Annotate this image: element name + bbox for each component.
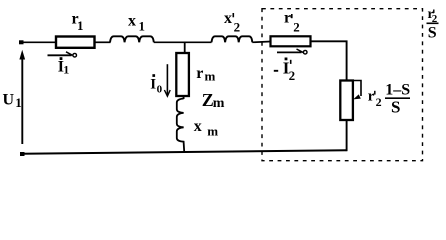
label Zm (202, 90, 225, 111)
svg-text:1: 1 (77, 18, 84, 33)
label U1 (3, 91, 22, 110)
resistor rm (176, 53, 189, 96)
label I0 (phasor) (150, 74, 162, 95)
resistor r1 (56, 37, 95, 48)
svg-text:I: I (150, 77, 156, 93)
wire: r2' to top-right corner and down (311, 41, 347, 80)
label r2' (284, 10, 300, 35)
label r2' (1-S)/S (368, 82, 410, 117)
svg-text:S: S (391, 98, 400, 117)
wire: rm to xm stub (183, 96, 185, 99)
resistor r2' (271, 36, 311, 46)
wire: between x2' and r2' (252, 41, 270, 44)
current arrow -I2' (277, 49, 307, 54)
svg-text:r: r (368, 88, 375, 104)
svg-text:r: r (196, 65, 203, 82)
label r1 (72, 11, 84, 34)
current arrow I0 (164, 64, 170, 96)
label -I2' (phasor) (274, 58, 295, 84)
node: input terminal top-left (19, 40, 24, 44)
svg-text:S: S (428, 25, 437, 42)
voltage arrow U1 (19, 50, 25, 144)
inductor x1 (110, 36, 154, 42)
label r2'/S (total rotor resistance) (427, 7, 439, 42)
svg-text:2: 2 (289, 68, 296, 83)
current arrow I1 (48, 52, 77, 57)
svg-text:x: x (224, 10, 232, 27)
label I1 (phasor) (58, 57, 70, 76)
wire: between x1 and x2' (154, 41, 212, 43)
svg-text:1: 1 (63, 63, 69, 77)
svg-text:2: 2 (376, 95, 382, 109)
svg-text:0: 0 (157, 84, 163, 96)
svg-text:2: 2 (293, 19, 300, 34)
variable arrow on load resistor (353, 81, 361, 100)
label x2' (224, 10, 240, 34)
inductor xm (vertical) (177, 99, 184, 152)
wire: bottom return wire (22, 150, 347, 154)
svg-text:2: 2 (234, 20, 241, 35)
wire: junction stub down to rm (184, 42, 186, 53)
label x1 (128, 12, 145, 33)
svg-text:1–S: 1–S (385, 82, 410, 99)
wire: between r1 and x1 (95, 41, 111, 43)
wire: load resistor down to bottom wire (346, 120, 348, 151)
svg-text:m: m (207, 124, 218, 139)
node: input terminal bottom-left (20, 152, 25, 156)
svg-text:U: U (3, 91, 15, 108)
svg-text:m: m (205, 69, 216, 84)
svg-text:x: x (194, 118, 202, 135)
label xm (194, 118, 219, 139)
svg-text:r: r (284, 10, 291, 27)
label rm (196, 65, 215, 83)
wire: top-left horizontal segment (21, 41, 56, 43)
svg-text:1: 1 (139, 19, 146, 34)
dashed boundary box (262, 9, 423, 161)
resistor r2'(1-S)/S (vertical, load) (340, 81, 353, 121)
inductor x2' (212, 36, 253, 42)
svg-text:1: 1 (15, 95, 21, 110)
svg-text:x: x (128, 12, 136, 29)
svg-text:m: m (213, 96, 225, 111)
